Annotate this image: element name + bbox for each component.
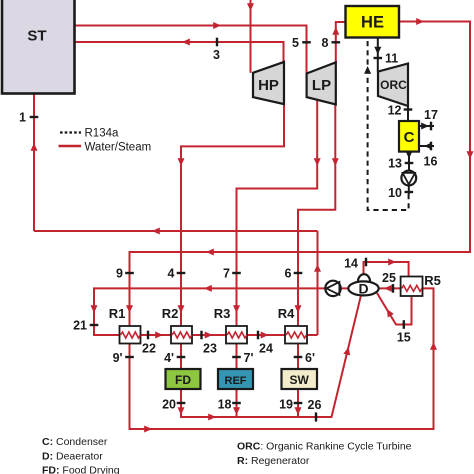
regenerator R1 <box>120 326 141 344</box>
wire: LP bottom outlet down, left, down to R3 (node 7 leg) <box>237 100 318 326</box>
sanitary water unit SW <box>282 369 318 389</box>
node 19 <box>294 402 303 404</box>
node 22 <box>147 331 149 340</box>
turbine ORC (organic rankine cycle) <box>378 64 408 107</box>
turbine HP <box>253 62 284 104</box>
svg-text:16: 16 <box>424 155 438 169</box>
wire: LP corner outlet down, jog left, down to R4 (node 6 leg) <box>298 105 335 327</box>
arrow: riser flow up <box>314 264 321 272</box>
svg-text:20: 20 <box>162 398 176 412</box>
svg-text:6: 6 <box>285 267 292 281</box>
node 25 <box>392 284 394 293</box>
turbine LP <box>307 62 336 104</box>
wire: R5 left out to D right (node 25) <box>378 287 401 289</box>
arrow: HE outlet right <box>416 18 424 25</box>
arrow: node 25 flow left into D <box>384 285 392 292</box>
svg-text:3: 3 <box>213 48 220 62</box>
wire: R2 to R3 (node 23) <box>192 334 226 336</box>
svg-text:REF: REF <box>225 375 247 387</box>
arrow: diagonal up into D from node 26 line <box>343 346 352 355</box>
node 17 <box>430 122 432 131</box>
arrow: SW drain down <box>295 407 302 415</box>
arrow: drain line flow right <box>208 414 216 421</box>
svg-text:18: 18 <box>218 398 232 412</box>
node 14 <box>365 258 367 267</box>
wire: C right stub to node 17 <box>419 125 434 127</box>
svg-text:11: 11 <box>385 52 398 66</box>
arrow: node 4 leg down after corner <box>178 158 185 166</box>
arrow: HE to ORC down <box>374 47 381 55</box>
node 4 <box>177 272 186 274</box>
svg-text:SW: SW <box>290 373 310 387</box>
wire: R4 right-side outlet <box>307 334 318 336</box>
svg-text:R1: R1 <box>109 306 126 321</box>
arrow: node 6 leg down into R4 <box>295 305 302 313</box>
arrow: node 9 leg down into R1 <box>126 305 133 313</box>
wire: R2 bottom to FD (node 4' leg) <box>180 344 182 370</box>
arrow: LP corner outlet down <box>332 158 339 166</box>
wire: C bottom to ORC pump (node 13 leg) <box>408 152 410 171</box>
node 7' <box>232 356 241 358</box>
arrow: ST to LP flow right <box>213 22 221 29</box>
svg-text:9: 9 <box>116 267 123 281</box>
node 24 <box>257 331 259 340</box>
node 15 <box>403 320 405 329</box>
wire: D dome top up, right, down into R5 top (node 14) <box>364 262 409 277</box>
regenerator R3 <box>226 326 247 344</box>
wire: SW drain down to bottom line (node 19) <box>297 389 299 417</box>
node 20 <box>177 402 186 404</box>
arrow: chain flow right R3-R4 <box>261 332 269 339</box>
arrow: feedwater flow left to node 21 <box>204 285 212 292</box>
arrow: LP bottom outlet down <box>314 158 321 166</box>
svg-text:14: 14 <box>344 257 358 271</box>
wire: riser from R4 outlet up to line1 <box>317 231 319 335</box>
arrow: up to R5 right side <box>430 342 437 350</box>
svg-text:4: 4 <box>168 267 175 281</box>
wire: boiler feed from top edge into HP inlet <box>250 0 252 73</box>
wire: FD drain down, right, diagonal up into D (node 20, 26) <box>181 295 361 417</box>
wire: ORC pump bottom stub (node 10 leg) <box>408 185 410 194</box>
node 18 <box>232 402 241 404</box>
svg-text:24: 24 <box>259 342 273 356</box>
regenerator R4 <box>285 326 307 344</box>
wire: deaerator D to feed pump to riser junction <box>318 287 349 289</box>
svg-text:R2: R2 <box>162 306 179 321</box>
node 5 <box>302 41 311 43</box>
node 9' <box>125 356 134 358</box>
node 7 <box>232 272 241 274</box>
node 12 <box>404 108 413 110</box>
wire: R3 to R4 (node 24) <box>247 334 285 336</box>
wire: HE bottom to ORC inlet (node 11 leg) <box>377 38 379 72</box>
svg-text:HE: HE <box>361 14 384 32</box>
node 6 <box>294 272 303 274</box>
svg-text:ST: ST <box>27 28 46 45</box>
deaerator D (ellipse with dome) <box>348 274 378 296</box>
pump P-ORC (circle with down triangle) <box>401 171 416 186</box>
svg-text:17: 17 <box>424 108 438 122</box>
svg-text:Water/Steam: Water/Steam <box>85 142 152 154</box>
node 13 <box>405 162 414 164</box>
heat exchanger HE <box>346 6 400 38</box>
svg-text:21: 21 <box>73 319 87 333</box>
wire: HP bottom outlet down, left, down to R2 (node 4 leg) <box>181 104 284 326</box>
arrow: diagonal up into D from node 15 line <box>384 307 394 317</box>
wire: R1 drain down, right along bottom, up to R5 right side <box>130 288 434 429</box>
svg-text:8: 8 <box>322 36 329 50</box>
arrow: up into HE at node 8 <box>332 27 339 35</box>
svg-text:15: 15 <box>397 331 411 345</box>
wire: node 16 stub into C <box>419 145 434 147</box>
svg-text:R134a: R134a <box>85 128 119 140</box>
arrow: C to pump down <box>406 151 413 159</box>
node 11 <box>374 57 383 59</box>
wire: R5 bottom out, left, diagonal up into D (node 15) <box>377 293 412 325</box>
svg-text:FD: Food Drying: FD: Food Drying <box>42 465 120 474</box>
arrow: bottom line flow right <box>144 426 152 433</box>
arrow: line1 flow left <box>152 228 160 235</box>
wire: junction left to node 21 drop into R1 <box>94 288 318 335</box>
svg-text:1: 1 <box>19 111 26 125</box>
node 3 <box>216 38 218 47</box>
food drying unit FD <box>166 369 201 389</box>
node 9 <box>125 272 134 274</box>
node 4' <box>177 356 186 358</box>
arrow: node 4 leg down into R2 <box>178 305 185 313</box>
svg-text:LP: LP <box>312 77 331 94</box>
wire: R1 to R2 (node 22) <box>141 334 172 336</box>
svg-text:25: 25 <box>382 271 396 285</box>
svg-text:D: D <box>358 281 368 297</box>
svg-text:7': 7' <box>244 351 254 365</box>
arrow: chain flow right R1-R2 <box>155 332 163 339</box>
wire: ORC outlet to condenser C (node 12 leg) <box>407 106 409 121</box>
arrow: top feed down into HP <box>247 3 254 11</box>
svg-text:R3: R3 <box>214 306 231 321</box>
svg-text:R: Regenerator: R: Regenerator <box>237 455 310 467</box>
arrow: HP exhaust flow left to ST <box>182 39 190 46</box>
svg-text:13: 13 <box>388 157 402 171</box>
wire: ST bottom node 1 leg <box>33 94 35 232</box>
arrow: node 14 line flow right <box>388 259 396 266</box>
arrow: node 7 leg down into R3 <box>233 305 240 313</box>
svg-text:12: 12 <box>388 104 402 118</box>
svg-text:9': 9' <box>113 351 123 365</box>
svg-text:HP: HP <box>258 77 279 94</box>
arrow: node 21 leg down <box>91 305 98 313</box>
svg-text:4': 4' <box>164 351 174 365</box>
svg-text:7: 7 <box>223 267 230 281</box>
svg-text:D: Deaerator: D: Deaerator <box>42 451 103 463</box>
wire: R3 bottom to REF (node 7' leg) <box>236 344 238 370</box>
svg-text:R5: R5 <box>424 273 441 288</box>
arrow: node 16 inflow left <box>424 143 432 150</box>
wire: ST upper outlet to LP inlet (node 5 leg) <box>75 26 307 74</box>
wire: line1 from riser to node 1 <box>34 230 318 232</box>
steam turbine ST <box>2 0 75 94</box>
arrow: FD drain down <box>178 407 185 415</box>
arrow: chain flow right R2-R3 <box>205 332 213 339</box>
wire: ST lower line to HP top (node 3 leg) <box>75 42 284 62</box>
wire: R4 bottom to SW (node 6' leg) <box>297 344 299 370</box>
svg-text:C: Condenser: C: Condenser <box>42 436 108 448</box>
arrow: REF drain down <box>233 407 240 415</box>
node 1 <box>30 116 39 118</box>
svg-text:R4: R4 <box>278 306 295 321</box>
svg-text:5: 5 <box>292 36 299 50</box>
refrigeration unit REF <box>218 369 253 389</box>
svg-text:10: 10 <box>388 186 402 200</box>
node 26 <box>315 412 317 421</box>
arrow: node 1 leg up into ST <box>31 143 38 151</box>
node 8 <box>332 41 341 43</box>
arrow: line2 flow left <box>206 249 214 256</box>
node 6' <box>294 356 303 358</box>
node 23 <box>200 331 202 340</box>
svg-text:ORC: Organic Rankine Cycle Tur: ORC: Organic Rankine Cycle Turbine <box>237 441 412 453</box>
legend red line sample: Water/Steam <box>59 145 82 147</box>
regenerator R5 <box>401 277 423 297</box>
node 16 <box>430 142 432 151</box>
pump P-feed (circle with left triangle) <box>325 281 340 296</box>
node 21 <box>90 324 99 326</box>
legend dashed line sample: R134a <box>60 131 81 133</box>
svg-text:C: C <box>404 129 415 146</box>
svg-text:19: 19 <box>279 398 293 412</box>
svg-text:6': 6' <box>305 351 315 365</box>
node 10 <box>405 191 414 193</box>
wire: LP top-right up to HE left (node 8 leg) <box>336 22 346 62</box>
arrow: node 17 outflow right <box>421 123 429 130</box>
svg-text:FD: FD <box>175 373 191 387</box>
svg-text:ORC: ORC <box>380 78 407 92</box>
arrow: right edge down <box>467 151 474 159</box>
wire: R134a dashed return from node 10 to HE <box>368 38 409 210</box>
wire: REF drain down to bottom line (node 18) <box>236 389 238 417</box>
svg-text:22: 22 <box>142 342 156 356</box>
svg-text:23: 23 <box>203 342 217 356</box>
wire: HE right out, down right edge, left along line2, down to R1 (node 9 leg) <box>130 22 471 327</box>
condenser C <box>399 121 419 152</box>
arrow: dashed return up into HE <box>364 66 371 74</box>
regenerator R2 <box>171 326 192 344</box>
svg-text:26: 26 <box>308 398 322 412</box>
